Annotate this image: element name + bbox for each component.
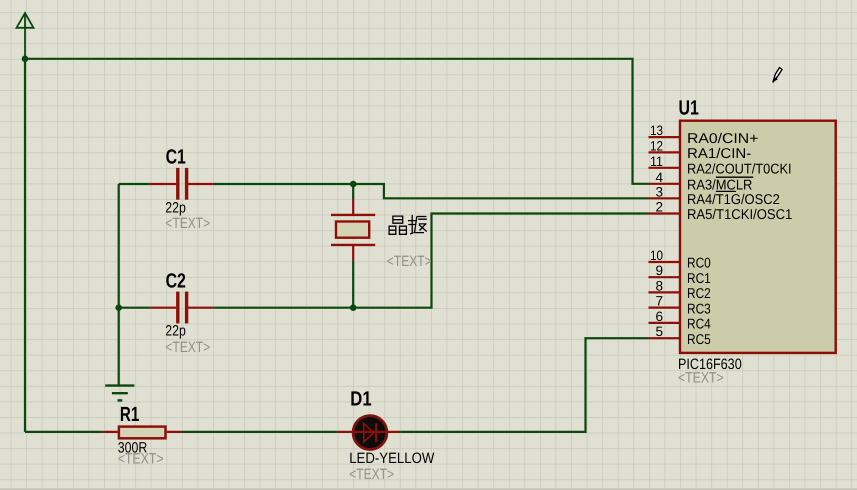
wire: top rail from power junction to MCLR corner (25, 59, 649, 184)
svg-text:<TEXT>: <TEXT> (387, 253, 432, 270)
svg-text:4: 4 (655, 170, 663, 185)
pin 9 RC1 (649, 263, 711, 287)
pin 11 RA2 (649, 154, 792, 178)
svg-text:<TEXT>: <TEXT> (118, 451, 164, 468)
LED D1 (337, 416, 400, 450)
sheet edge bottom (0, 488, 857, 490)
wire: R1 to D1 (181, 431, 337, 433)
svg-text:RA1/CIN-: RA1/CIN- (687, 146, 751, 162)
svg-text:RC4: RC4 (687, 317, 711, 333)
svg-text:5: 5 (655, 324, 663, 339)
pin 5 RC5 (649, 324, 711, 348)
wire: left rail down (24, 59, 26, 432)
svg-text:RC5: RC5 (687, 332, 711, 348)
svg-text:12: 12 (650, 138, 663, 153)
svg-text:<TEXT>: <TEXT> (165, 215, 210, 232)
wire: D1 to RC5 (400, 338, 649, 432)
wire: C1 left lead (119, 183, 150, 185)
svg-text:U1: U1 (679, 96, 699, 119)
power terminal (VCC arrow) (17, 13, 34, 59)
node: power rail junction (22, 56, 29, 63)
pin 12 RA1 (649, 138, 752, 162)
svg-text:RA2/COUT/T0CKI: RA2/COUT/T0CKI (687, 162, 792, 178)
crystal label (Chinese jingzhen) (389, 215, 427, 234)
wire: crystal junction up to pin RA5/OSC1 (353, 214, 648, 308)
svg-text:RC1: RC1 (687, 271, 711, 287)
svg-text:8: 8 (655, 278, 663, 293)
svg-text:6: 6 (655, 309, 663, 324)
node: crystal top junction (350, 181, 357, 188)
crystal X1 (331, 199, 375, 261)
svg-text:C2: C2 (166, 270, 186, 293)
svg-text:LED-YELLOW: LED-YELLOW (349, 450, 435, 467)
node: C2 left junction (115, 304, 122, 311)
wire: C1 right to crystal top junction, step down to pin RA4 (214, 184, 649, 198)
pencil cursor (773, 68, 782, 83)
wire: cap rail vertical C1-C2-ground (118, 184, 120, 385)
svg-text:22p: 22p (165, 323, 186, 340)
wire: C2 left lead (119, 307, 151, 309)
svg-text:13: 13 (650, 123, 663, 138)
resistor R1 (103, 427, 182, 439)
svg-text:9: 9 (655, 263, 663, 278)
node: crystal bottom junction (350, 304, 357, 311)
capacitor C1 (150, 168, 214, 200)
svg-text:D1: D1 (350, 388, 371, 411)
svg-text:RA0/CIN+: RA0/CIN+ (687, 131, 758, 147)
wire: crystal top green stub (352, 184, 354, 199)
pin 8 RC2 (649, 278, 711, 302)
svg-text:<TEXT>: <TEXT> (349, 466, 394, 483)
svg-text:10: 10 (650, 248, 663, 263)
svg-text:C1: C1 (166, 145, 186, 168)
svg-text:3: 3 (655, 184, 663, 199)
wire: crystal bottom green stub (352, 261, 354, 308)
pin 2 RA5 (649, 200, 793, 224)
ground symbol (105, 386, 134, 401)
pin 6 RC4 (649, 309, 711, 333)
svg-text:<TEXT>: <TEXT> (678, 369, 724, 386)
svg-text:RA5/T1CKI/OSC1: RA5/T1CKI/OSC1 (687, 207, 792, 223)
svg-text:7: 7 (655, 294, 663, 309)
pin 7 RC3 (649, 294, 711, 318)
wire: bottom rail to R1 (25, 431, 103, 433)
svg-text:RC0: RC0 (687, 256, 711, 272)
wire: C2 right to crystal bottom junction (214, 307, 353, 309)
svg-text:R1: R1 (120, 403, 139, 426)
pin 3 RA4 (649, 184, 780, 208)
svg-text:<TEXT>: <TEXT> (165, 339, 210, 356)
capacitor C2 (150, 292, 214, 324)
svg-text:2: 2 (655, 200, 663, 215)
chip U1 body PIC16F630 (680, 121, 836, 353)
svg-text:RC2: RC2 (687, 286, 711, 302)
pin 4 RA3/MCLR (649, 170, 754, 194)
svg-text:RC3: RC3 (687, 301, 711, 317)
svg-text:RA4/T1G/OSC2: RA4/T1G/OSC2 (687, 192, 780, 208)
pin 10 RC0 (649, 248, 711, 272)
svg-text:11: 11 (650, 154, 663, 169)
pin 13 RA0 (649, 123, 759, 147)
